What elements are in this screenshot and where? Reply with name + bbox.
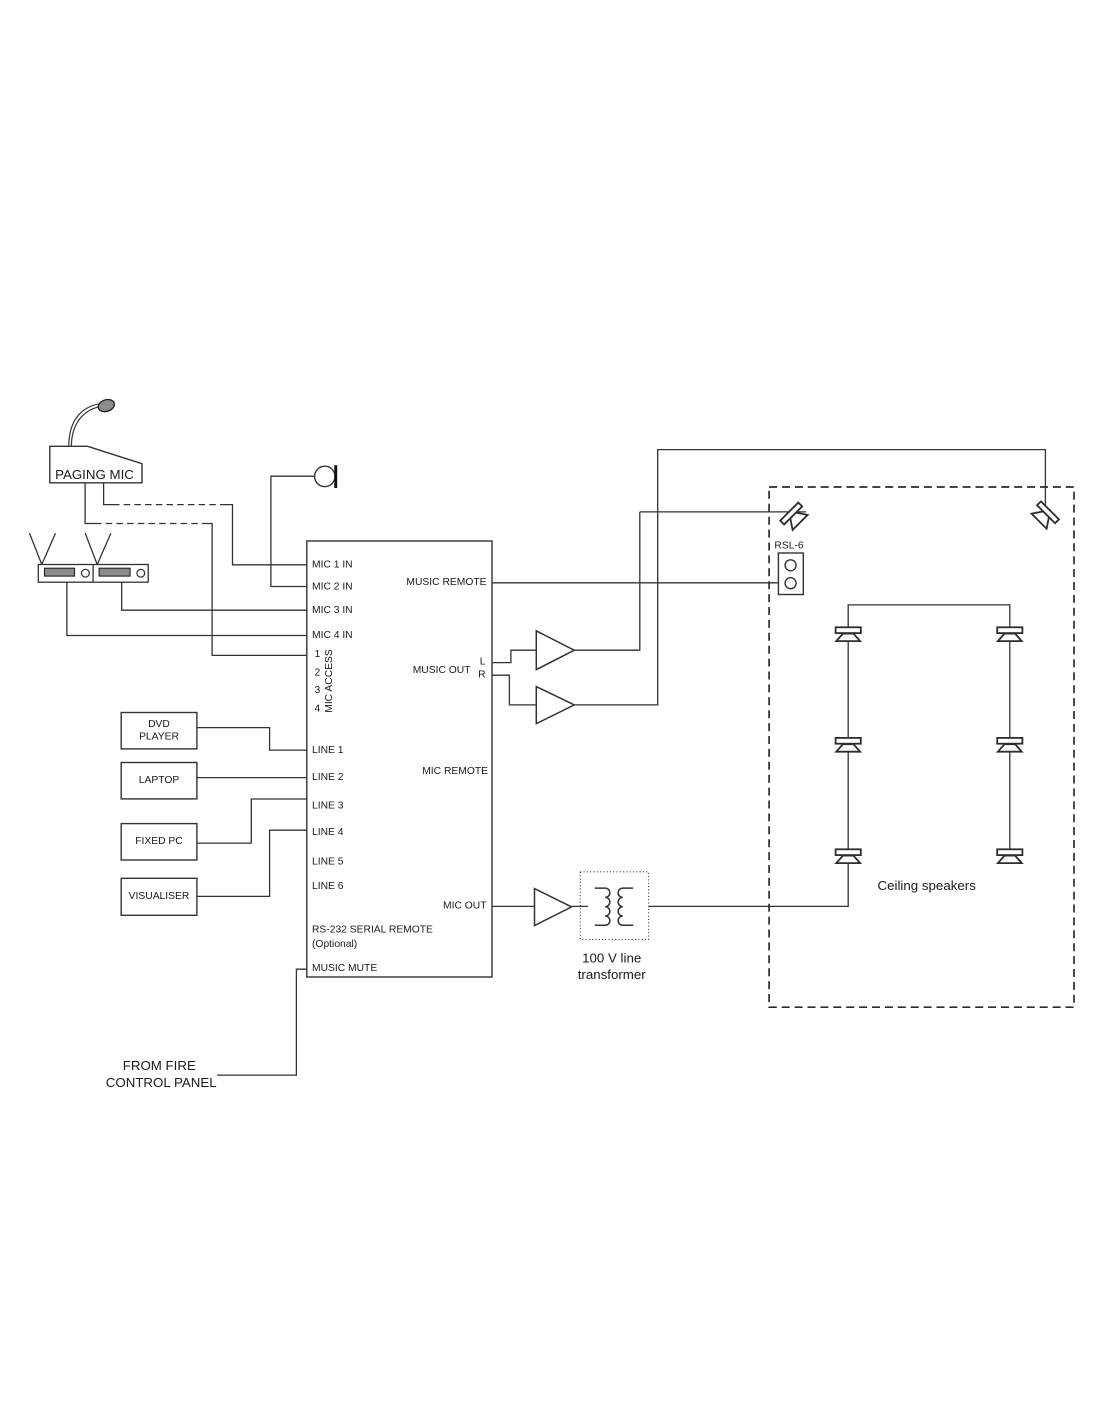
svg-text:LINE 4: LINE 4 xyxy=(312,827,344,838)
svg-text:100 V line: 100 V line xyxy=(582,951,641,966)
svg-text:MIC 4 IN: MIC 4 IN xyxy=(312,630,353,641)
svg-text:transformer: transformer xyxy=(578,967,647,982)
svg-text:LAPTOP: LAPTOP xyxy=(139,775,180,786)
svg-text:PAGING MIC: PAGING MIC xyxy=(55,467,134,482)
svg-text:LINE 2: LINE 2 xyxy=(312,772,344,783)
svg-text:R: R xyxy=(478,669,485,680)
svg-text:L: L xyxy=(480,657,486,668)
svg-text:1: 1 xyxy=(315,649,321,660)
svg-text:MIC ACCESS: MIC ACCESS xyxy=(324,649,335,713)
svg-text:Ceiling speakers: Ceiling speakers xyxy=(878,878,977,893)
svg-text:MIC REMOTE: MIC REMOTE xyxy=(422,766,488,777)
svg-text:RS-232 SERIAL REMOTE: RS-232 SERIAL REMOTE xyxy=(312,925,433,936)
svg-text:VISUALISER: VISUALISER xyxy=(129,891,190,902)
svg-text:LINE 1: LINE 1 xyxy=(312,745,344,756)
svg-text:LINE 3: LINE 3 xyxy=(312,801,344,812)
svg-text:LINE 5: LINE 5 xyxy=(312,856,344,867)
svg-text:CONTROL PANEL: CONTROL PANEL xyxy=(106,1075,217,1090)
svg-text:RSL-6: RSL-6 xyxy=(774,540,803,551)
svg-text:MIC 2 IN: MIC 2 IN xyxy=(312,582,353,593)
svg-text:DVD: DVD xyxy=(148,719,170,730)
svg-text:3: 3 xyxy=(315,685,321,696)
svg-text:MIC OUT: MIC OUT xyxy=(443,901,487,912)
svg-text:4: 4 xyxy=(315,704,321,715)
svg-text:MUSIC OUT: MUSIC OUT xyxy=(413,665,471,676)
svg-text:FIXED PC: FIXED PC xyxy=(135,836,183,847)
svg-text:PLAYER: PLAYER xyxy=(139,732,179,743)
svg-text:MUSIC REMOTE: MUSIC REMOTE xyxy=(406,577,486,588)
svg-text:LINE 6: LINE 6 xyxy=(312,881,344,892)
svg-text:MUSIC MUTE: MUSIC MUTE xyxy=(312,963,377,974)
svg-text:MIC 1 IN: MIC 1 IN xyxy=(312,560,353,571)
svg-text:(Optional): (Optional) xyxy=(312,939,357,950)
svg-text:2: 2 xyxy=(315,667,321,678)
svg-text:MIC 3 IN: MIC 3 IN xyxy=(312,605,353,616)
svg-text:FROM FIRE: FROM FIRE xyxy=(123,1058,196,1073)
